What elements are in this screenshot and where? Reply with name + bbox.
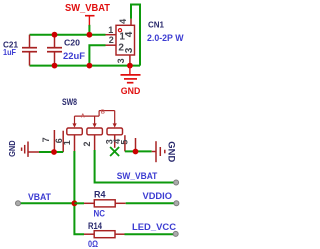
- contact box 1: [67, 128, 83, 135]
- pin 1: [74, 135, 76, 151]
- svg-text:GND: GND: [166, 141, 177, 162]
- wire CN1 pin2 branch: [89, 45, 105, 65]
- svg-text:CN1: CN1: [148, 20, 164, 30]
- svg-text:4: 4: [118, 19, 128, 24]
- contact box 3: [107, 128, 123, 135]
- port dot LED_VCC: [173, 231, 178, 236]
- svg-text:SW_VBAT: SW_VBAT: [117, 171, 158, 182]
- wire SW8 pin1 rail down to R14 corner: [74, 151, 84, 234]
- capacitor C21: [3, 35, 37, 66]
- junction node top power stem: [87, 32, 93, 38]
- svg-text:C20: C20: [64, 38, 80, 48]
- junction node bottom pin2 branch: [87, 63, 93, 69]
- svg-text:R14: R14: [88, 221, 102, 231]
- wire VDDIO: [126, 202, 177, 204]
- wire bottom rail (GND net): [30, 65, 141, 67]
- connector CN1: [106, 19, 184, 66]
- wire SW_VBAT power stem: [88, 25, 90, 35]
- port dot VBAT: [16, 201, 21, 206]
- svg-text:GND: GND: [121, 86, 141, 96]
- svg-text:LED_VCC: LED_VCC: [132, 222, 176, 233]
- wire SW8 pin2 down and right to SW_VBAT port: [95, 150, 176, 183]
- wire LED_VCC: [125, 233, 176, 235]
- svg-text:A: A: [81, 113, 85, 119]
- svg-text:2.0-2P W: 2.0-2P W: [147, 33, 184, 43]
- svg-text:3: 3: [116, 58, 126, 63]
- svg-text:SW_VBAT: SW_VBAT: [65, 2, 111, 14]
- pin 2: [94, 135, 96, 150]
- capacitor C20: [47, 35, 86, 66]
- ground GND right of SW8: [152, 141, 177, 162]
- pin 3: [114, 135, 116, 148]
- svg-text:5: 5: [119, 140, 129, 145]
- svg-text:1: 1: [108, 25, 113, 35]
- wire left ground to pins 6,7: [39, 151, 63, 153]
- port dot SW_VBAT: [174, 180, 179, 185]
- pin 4: [124, 135, 126, 151]
- resistor R4: [74, 190, 125, 219]
- resistor R14: [84, 221, 125, 249]
- pin 7: [53, 130, 55, 152]
- wire VBAT: [18, 202, 74, 204]
- svg-text:R4: R4: [94, 190, 106, 200]
- junction node VBAT/R4: [72, 200, 78, 206]
- bracket B: [98, 111, 100, 117]
- ground GND left of SW8: [7, 140, 39, 157]
- wire CN1 pin4 loop: [131, 5, 140, 66]
- svg-text:GND: GND: [7, 140, 17, 157]
- bracket A: [75, 115, 100, 117]
- pin 6: [62, 131, 64, 152]
- svg-text:VDDIO: VDDIO: [143, 191, 173, 202]
- svg-text:3: 3: [124, 47, 135, 53]
- junction node top C20: [52, 32, 58, 38]
- contact box 2: [87, 128, 103, 135]
- wire top rail (SW_VBAT net): [30, 34, 106, 36]
- pin 5: [135, 138, 137, 152]
- svg-text:1: 1: [62, 140, 72, 145]
- svg-text:0Ω: 0Ω: [88, 239, 98, 249]
- svg-text:1uF: 1uF: [3, 47, 16, 57]
- switch SW8: [41, 97, 135, 152]
- wire pin4/pin5 to right ground: [125, 150, 152, 152]
- junction node bottom CN1 pin3: [127, 63, 133, 69]
- port dot VDDIO: [174, 201, 179, 206]
- power port SW_VBAT: [65, 2, 111, 25]
- junction node bottom C20: [52, 63, 58, 69]
- svg-text:NC: NC: [94, 208, 106, 218]
- svg-text:22uF: 22uF: [63, 51, 86, 61]
- junction node pin7: [51, 149, 57, 155]
- ground GND under CN1: [121, 66, 141, 96]
- junction node pin5: [133, 149, 139, 155]
- svg-text:B: B: [101, 109, 105, 115]
- svg-text:VBAT: VBAT: [28, 192, 51, 202]
- no-connect X on SW8 pin 3: [110, 147, 119, 156]
- svg-text:4: 4: [124, 31, 135, 37]
- svg-text:SW8: SW8: [62, 97, 77, 107]
- svg-text:2: 2: [109, 35, 114, 45]
- svg-text:2: 2: [82, 141, 92, 146]
- svg-text:7: 7: [41, 137, 51, 142]
